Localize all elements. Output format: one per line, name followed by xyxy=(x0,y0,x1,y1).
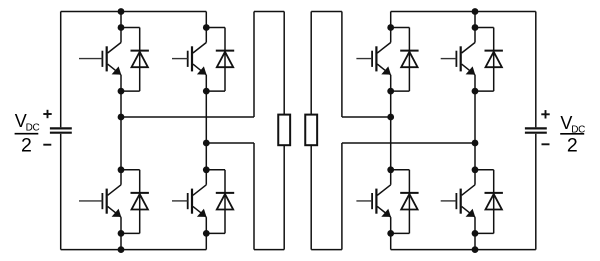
value label: Vdc/2 (left) xyxy=(15,111,40,157)
node: Q5 emitter xyxy=(118,230,125,237)
wire: Q3 emitter to D3 anode xyxy=(391,90,410,92)
wire: right loop to leg3 midpoint (upper) xyxy=(342,116,391,118)
value label: Vdc/2 (right) xyxy=(560,113,585,157)
IGBT Q4 xyxy=(441,28,476,92)
svg-text:2: 2 xyxy=(21,135,32,157)
node: Q8 collector xyxy=(472,166,479,173)
wire: leg2 (left bridge phase B) vertical xyxy=(205,12,207,250)
node: Q1 collector xyxy=(118,24,125,31)
wire: Q8 collector to D8 cathode xyxy=(475,169,494,171)
wire: right loop bottom link xyxy=(311,249,342,251)
wire: left loop top link xyxy=(254,11,284,13)
capacitor C1 (left DC-link, Vdc/2) xyxy=(50,12,72,250)
capacitor C2 (right DC-link, Vdc/2) xyxy=(525,12,547,250)
node: leg1 / bottom rail junction xyxy=(118,246,125,253)
node: Q2 emitter xyxy=(203,88,210,95)
diode D1 (antiparallel) xyxy=(131,28,149,92)
wire: bottom rail, right bridge xyxy=(391,249,536,251)
node: leg3 output midpoint xyxy=(387,114,394,121)
node: Q1 emitter xyxy=(118,88,125,95)
IGBT Q6 xyxy=(172,170,207,234)
wire: Q7 emitter to D7 anode xyxy=(391,232,410,234)
wire: Q6 emitter to D6 anode xyxy=(206,232,225,234)
node: leg1 output midpoint xyxy=(118,114,125,121)
node: Q5 collector xyxy=(118,166,125,173)
node: Q4 collector xyxy=(472,24,479,31)
IGBT Q2 xyxy=(172,28,207,92)
diode D5 (antiparallel) xyxy=(131,170,149,234)
svg-text:DC: DC xyxy=(26,123,40,134)
diode D7 (antiparallel) xyxy=(400,170,418,234)
label: C2 plus sign xyxy=(541,110,549,118)
wire: Q8 emitter to D8 anode xyxy=(475,232,494,234)
IGBT Q7 xyxy=(356,170,391,234)
wire: Q6 collector to D6 cathode xyxy=(206,169,225,171)
wire: leg1 midpoint to left loop (upper) xyxy=(121,116,254,118)
wire: Q3 collector to D3 cathode xyxy=(391,27,410,29)
node: leg4 output midpoint xyxy=(472,140,479,147)
label: C1 plus sign xyxy=(43,110,51,118)
node: Q7 emitter xyxy=(387,230,394,237)
wire: Q4 emitter to D4 anode xyxy=(475,90,494,92)
IGBT Q8 xyxy=(441,170,476,234)
wire: Q1 emitter to D1 anode xyxy=(121,90,140,92)
diode D6 (antiparallel) xyxy=(216,170,234,234)
resistor R1 (left load) xyxy=(278,12,290,250)
label: C1 minus sign xyxy=(43,144,51,146)
wire: right loop right side lower segment xyxy=(341,143,343,250)
wire: Q1 collector to D1 cathode xyxy=(121,27,140,29)
wire: bottom rail, left bridge xyxy=(61,249,207,251)
wire: top rail, right bridge xyxy=(391,11,536,13)
wire: Q2 emitter to D2 anode xyxy=(206,90,225,92)
svg-text:2: 2 xyxy=(567,135,578,157)
node: Q3 emitter xyxy=(387,88,394,95)
wire: Q5 collector to D5 cathode xyxy=(121,169,140,171)
wire: Q2 collector to D2 cathode xyxy=(206,27,225,29)
diode D8 (antiparallel) xyxy=(485,170,503,234)
node: Q6 collector xyxy=(203,166,210,173)
wire: right loop top link xyxy=(311,11,342,13)
wire: left loop left side upper segment xyxy=(253,12,255,118)
label: C2 minus sign xyxy=(542,143,550,145)
node: leg4 / top rail junction xyxy=(472,8,479,15)
node: Q7 collector xyxy=(387,166,394,173)
IGBT Q5 xyxy=(79,170,121,234)
wire: leg4 (right bridge phase B) vertical xyxy=(474,12,476,250)
node: Q8 emitter xyxy=(472,230,479,237)
IGBT Q1 xyxy=(79,28,121,92)
node: Q2 collector xyxy=(203,24,210,31)
node: Q6 emitter xyxy=(203,230,210,237)
wire: Q7 collector to D7 cathode xyxy=(391,169,410,171)
wire: leg3 (right bridge phase A) vertical xyxy=(390,12,392,250)
node: Q3 collector xyxy=(387,24,394,31)
wire: right loop right side upper segment xyxy=(341,12,343,118)
diode D4 (antiparallel) xyxy=(485,28,503,92)
resistor R2 (right load) xyxy=(305,12,317,250)
node: leg4 / bottom rail junction xyxy=(472,246,479,253)
node: Q4 emitter xyxy=(472,88,479,95)
wire: top rail, left bridge xyxy=(61,11,207,13)
node: leg1 / top rail junction xyxy=(118,8,125,15)
node: leg2 output midpoint xyxy=(203,140,210,147)
wire: leg1 (left bridge phase A) vertical xyxy=(120,12,122,250)
diode D3 (antiparallel) xyxy=(400,28,418,92)
diode D2 (antiparallel) xyxy=(216,28,234,92)
wire: Q5 emitter to D5 anode xyxy=(121,232,140,234)
wire: left loop bottom link xyxy=(254,249,284,251)
wire: leg2 midpoint to left loop (lower) xyxy=(206,142,254,144)
IGBT Q3 xyxy=(356,28,391,92)
wire: right loop to leg4 midpoint (lower) xyxy=(342,142,475,144)
wire: left loop left side lower segment xyxy=(253,143,255,250)
wire: Q4 collector to D4 cathode xyxy=(475,27,494,29)
